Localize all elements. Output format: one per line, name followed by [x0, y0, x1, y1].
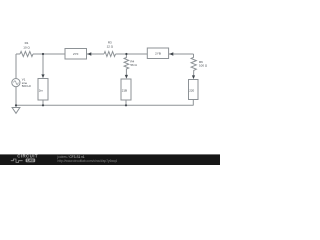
- node A junction dot: [42, 53, 44, 55]
- svg-text:LAB: LAB: [27, 159, 34, 163]
- box Z3: [189, 80, 199, 100]
- logo pulse squiggle: [11, 159, 23, 162]
- svg-text:100 Ω: 100 Ω: [199, 64, 208, 68]
- svg-text:2YF: 2YF: [73, 52, 79, 56]
- sine glyph of V1: [14, 81, 19, 85]
- box T1: [65, 49, 87, 60]
- wire top rail left segment: [16, 53, 20, 55]
- arrowhead into box Z3: [192, 75, 195, 79]
- footer bar: [0, 154, 220, 165]
- arrowhead into box Z1: [41, 74, 44, 78]
- arrowhead into box Z2: [125, 75, 128, 79]
- wire box T2 to right corner: [169, 53, 194, 55]
- ground rail junction dot left: [15, 104, 17, 106]
- ground: [12, 105, 20, 113]
- wire R3 to box T2: [116, 53, 148, 55]
- wire stub below box Z3: [192, 100, 194, 106]
- wire stub below box Z2: [125, 100, 127, 105]
- resistor R4: [124, 54, 129, 76]
- svg-text:10 Ω: 10 Ω: [23, 45, 30, 49]
- svg-text:2m: 2m: [39, 88, 44, 92]
- wire below source: [15, 87, 17, 106]
- ground rail junction dot under Z1: [42, 104, 44, 106]
- wire stub below box Z1: [42, 100, 44, 105]
- svg-text:2YB: 2YB: [155, 52, 161, 56]
- svg-text:220: 220: [189, 88, 194, 92]
- svg-text:12 Ω: 12 Ω: [107, 45, 114, 49]
- resistor R3: [104, 52, 116, 57]
- node B junction dot: [125, 53, 127, 55]
- resistor R1: [20, 51, 33, 56]
- svg-text:56 Ω: 56 Ω: [130, 63, 137, 67]
- voltage source V1: [12, 79, 20, 87]
- wire top left vertical: [15, 54, 17, 79]
- svg-text:500 Hz: 500 Hz: [22, 84, 32, 88]
- svg-text:http​://www.circuitlab.com/cir: http​://www.circuitlab.com/circuit/ap7y6…: [58, 159, 118, 163]
- arrowhead into box T1: [87, 52, 91, 56]
- resistor R6: [191, 54, 196, 77]
- box Z2: [121, 79, 131, 100]
- wire box T1 to R3: [87, 53, 105, 55]
- ground rail junction dot under Z2: [125, 104, 127, 106]
- logo LAB box: [26, 159, 36, 163]
- wire R1 to box T1: [33, 53, 65, 55]
- box T2: [147, 48, 168, 59]
- wire node A down: [42, 54, 44, 76]
- arrowhead into box T2: [169, 52, 173, 56]
- svg-text:21B: 21B: [122, 88, 127, 92]
- box Z1: [38, 79, 48, 101]
- wire ground rail: [16, 104, 194, 106]
- svg-text:R1: R1: [25, 41, 29, 45]
